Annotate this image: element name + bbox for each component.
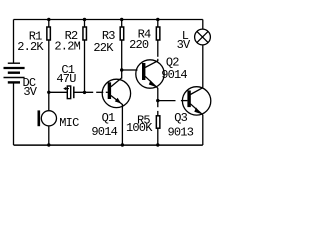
wire R4 top lead	[157, 20, 159, 28]
wire R4 bottom lead / Q2 collector (lower segment)	[157, 59, 159, 61]
node junction Q2 emitter/R5/Q3 base	[156, 99, 159, 102]
wire R3 bottom lead / Q1 collector	[121, 41, 123, 79]
resistor R2	[83, 27, 87, 40]
wire Q2 emitter junction to Q3 base (segment 2)	[181, 100, 188, 102]
battery B1 DC 3V	[4, 63, 25, 82]
svg-text:9013: 9013	[167, 125, 193, 139]
node junction R2/C1 wire	[83, 91, 86, 94]
node junction Q1 emitter/ground rail	[121, 143, 124, 146]
svg-text:2.2K: 2.2K	[17, 40, 44, 54]
microphone MIC	[38, 110, 57, 126]
wire R1 top lead	[48, 20, 50, 28]
wire Q1 collector to Q2 base	[122, 69, 138, 71]
svg-text:9014: 9014	[161, 68, 187, 82]
svg-text:Q3: Q3	[174, 111, 187, 125]
transistor Q1 9014 NPN	[102, 78, 130, 108]
wire Q3 emitter lead	[202, 115, 204, 145]
lamp L 3V	[195, 29, 211, 45]
resistor R3	[120, 27, 124, 40]
svg-text:220: 220	[129, 38, 149, 52]
wire Q2 emitter junction to Q3 base (segment 1)	[158, 100, 176, 102]
node junction R3 top rail	[120, 18, 123, 21]
wire left border lower (battery negative lead)	[13, 84, 15, 146]
resistor R4	[156, 27, 160, 40]
node junction R1/C1	[47, 91, 50, 94]
wire R5 top lead (upper segment)	[157, 101, 159, 108]
svg-text:3V: 3V	[177, 38, 191, 52]
node junction R2 top rail	[83, 18, 86, 21]
wire C1 to Q1 base (segment 1)	[74, 91, 93, 93]
svg-text:22K: 22K	[93, 41, 114, 55]
wire lamp top lead	[202, 20, 204, 30]
wire left border upper (battery positive lead)	[13, 20, 15, 64]
wire lamp bottom to Q3 collector	[202, 45, 204, 88]
wire R5 top lead (lower segment)	[157, 111, 159, 116]
transistor Q2 9014 NPN	[136, 60, 164, 88]
svg-text:2.2M: 2.2M	[54, 39, 80, 53]
svg-text:3V: 3V	[23, 85, 37, 99]
svg-text:Q1: Q1	[102, 111, 115, 125]
wire R2 top lead	[84, 20, 86, 28]
node junction R3/Q2 base	[120, 68, 123, 71]
resistor R5	[156, 116, 160, 128]
wire R5 bottom lead	[157, 128, 159, 145]
transistor Q3 9013 NPN	[182, 87, 210, 115]
resistor R1	[47, 27, 51, 40]
wire MIC junction to C1	[49, 91, 67, 93]
wire C1 to Q1 base (segment 2)	[96, 91, 103, 93]
svg-text:9014: 9014	[91, 125, 117, 139]
node junction R1 top rail	[47, 18, 50, 21]
wire R1 bottom lead to MIC	[48, 40, 50, 111]
wire R2 bottom lead	[84, 40, 86, 92]
svg-text:MIC: MIC	[59, 116, 79, 130]
node junction R5/ground rail	[156, 143, 159, 146]
wire C1 to Q1 base (segment 3)	[106, 91, 108, 93]
wire MIC bottom lead	[48, 126, 50, 145]
wire R4 bottom lead / Q2 collector (upper segment)	[157, 40, 159, 57]
node junction MIC/ground rail	[47, 143, 50, 146]
capacitor C1 47U electrolytic	[63, 86, 74, 99]
wire bottom ground rail	[14, 144, 203, 146]
wire R3 top lead	[121, 20, 123, 28]
wire Q1 emitter lead	[121, 105, 123, 146]
wire Q2 emitter lead	[157, 88, 159, 101]
svg-text:100K: 100K	[126, 121, 153, 135]
node junction R4 top rail	[156, 18, 159, 21]
wire top supply rail	[14, 19, 203, 21]
svg-text:47U: 47U	[56, 72, 76, 86]
